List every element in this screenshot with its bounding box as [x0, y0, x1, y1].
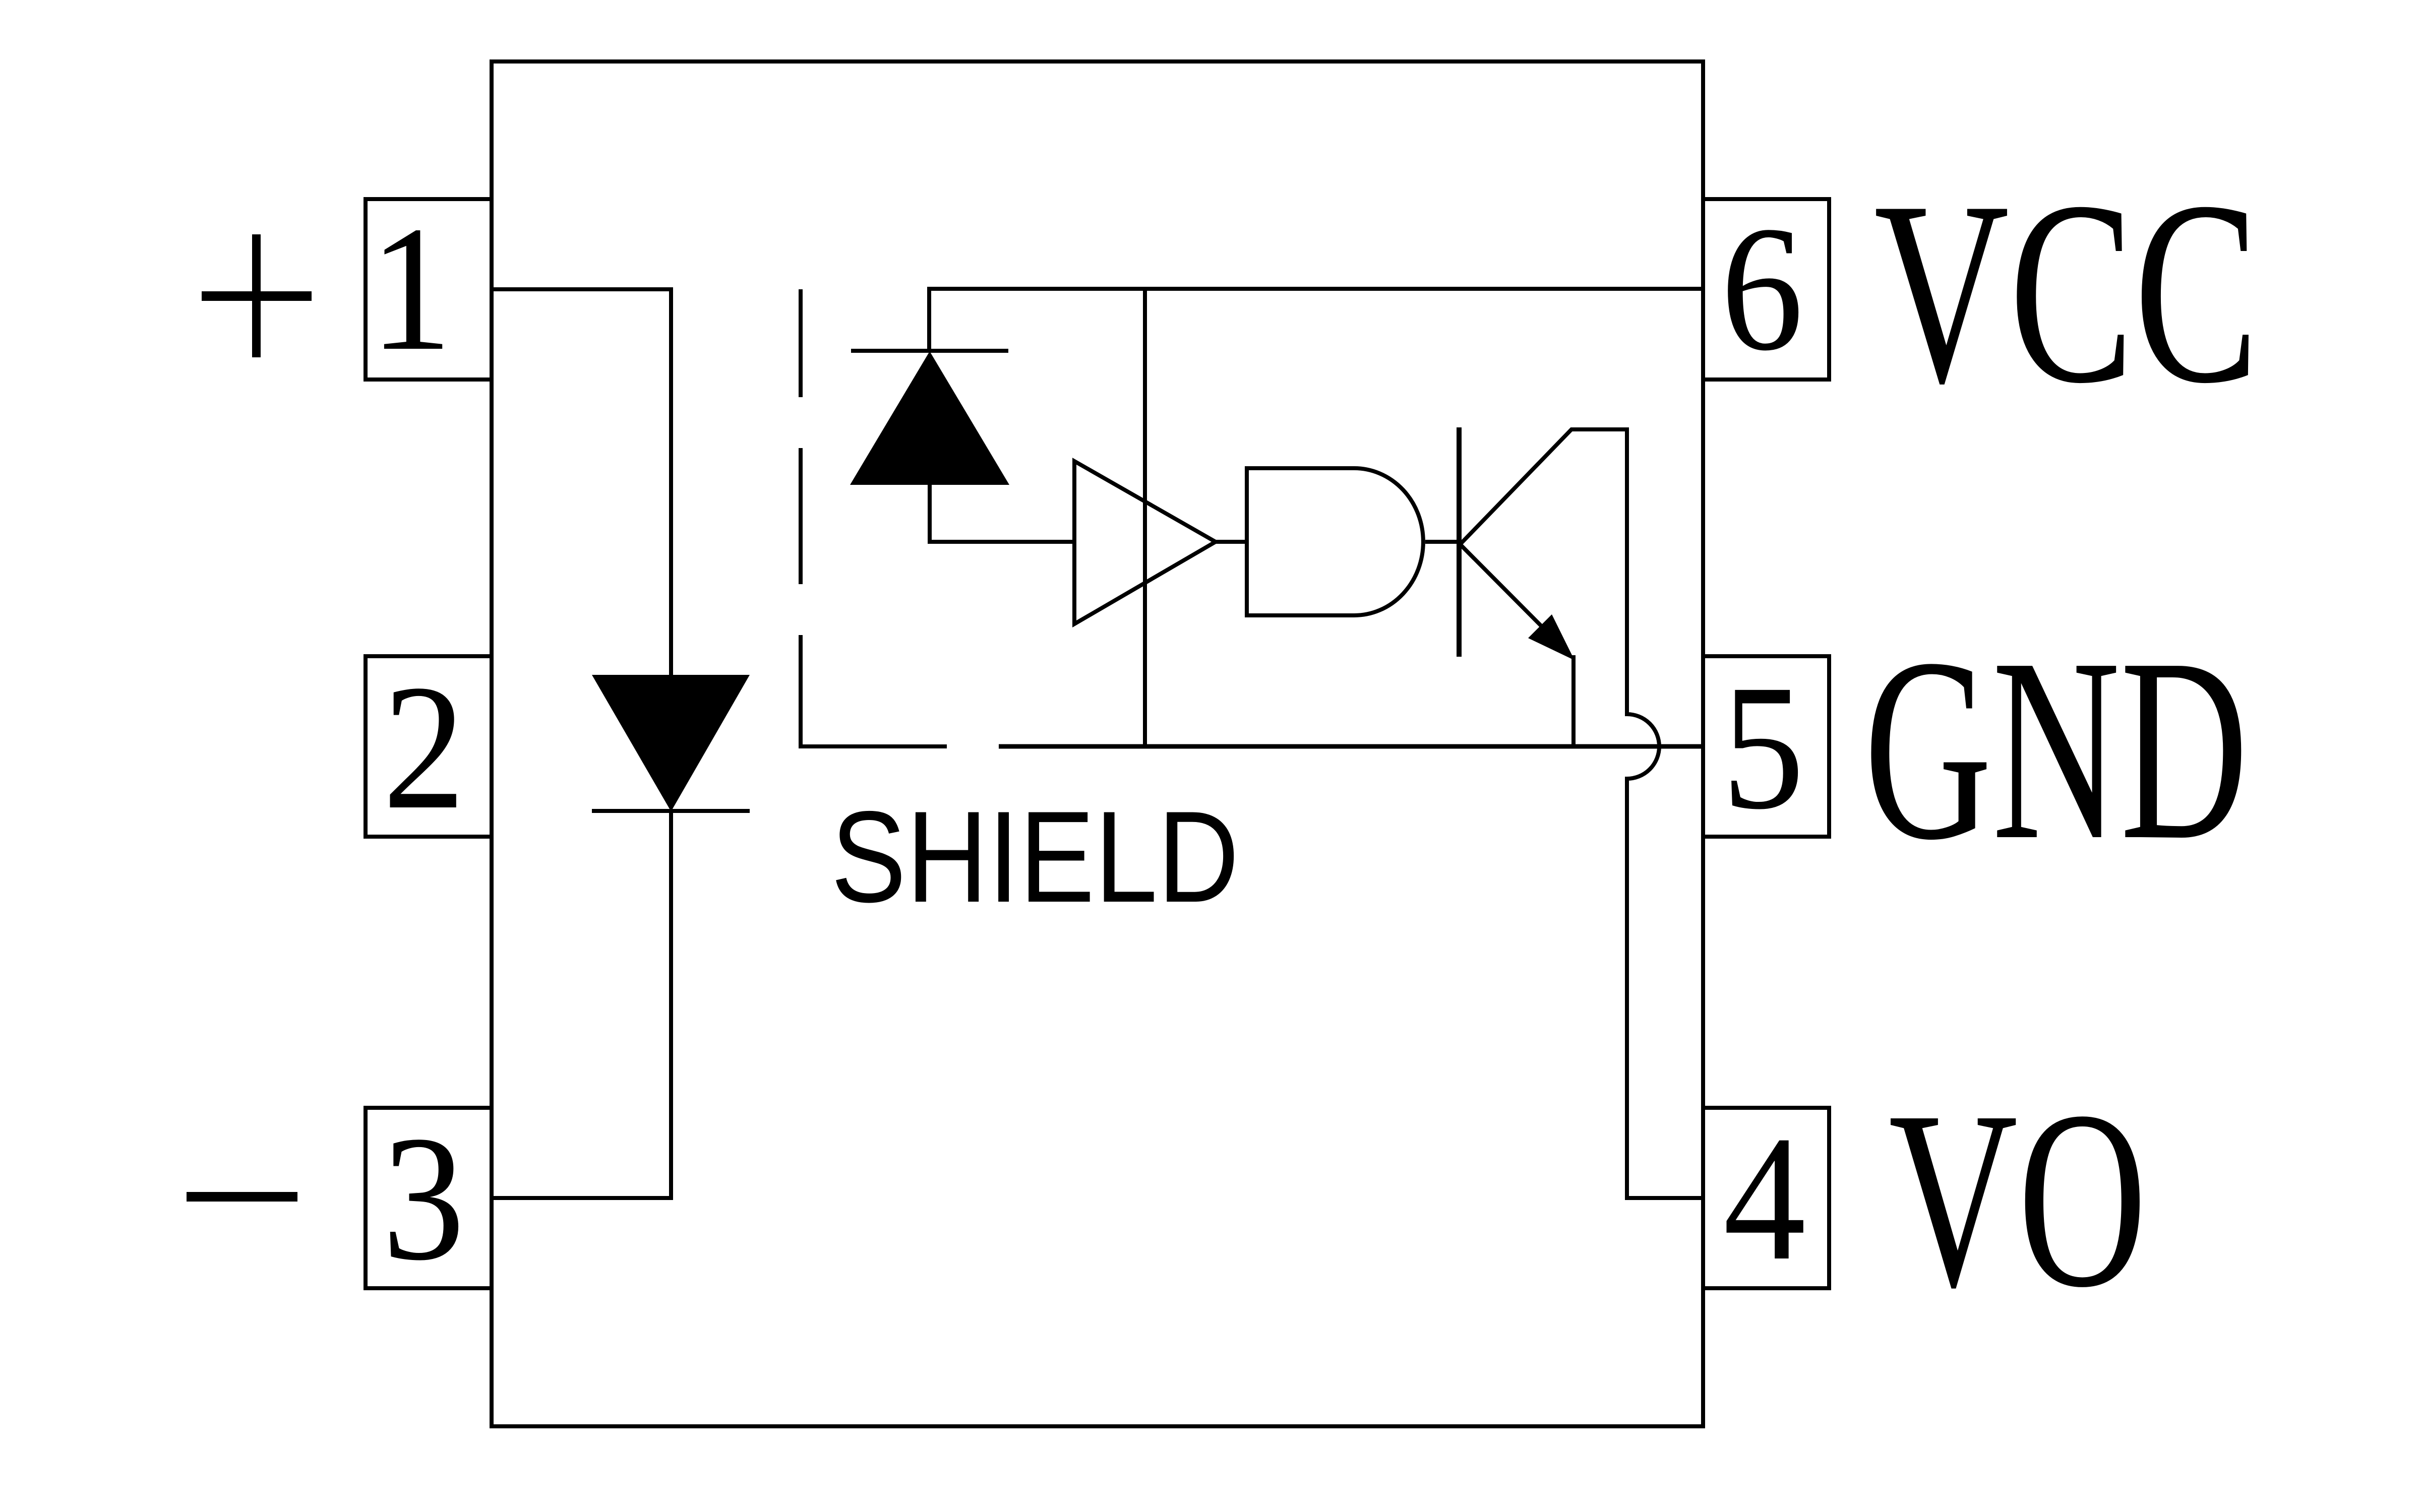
pin 3 box — [366, 1108, 492, 1288]
transistor Q1 base bar — [1457, 427, 1462, 657]
plus symbol — [202, 291, 312, 301]
pin 2 box — [366, 656, 492, 837]
svg-text:6: 6 — [1721, 189, 1803, 388]
wire buffer to gate — [1216, 540, 1247, 544]
pin 6 box — [1703, 199, 1829, 380]
wire photodiode to buffer — [930, 485, 1074, 542]
LED D1 filled triangle — [592, 675, 750, 811]
AND gate G1 — [1247, 468, 1423, 615]
svg-text:5: 5 — [1722, 648, 1804, 846]
pin 1 box — [366, 199, 492, 380]
svg-text:SHIELD: SHIELD — [831, 784, 1239, 929]
shield dashed corner — [801, 635, 947, 746]
transistor Q1 emitter wire — [1461, 545, 1548, 633]
svg-text:2: 2 — [383, 648, 465, 846]
photodiode D2 anode bar — [851, 349, 1008, 353]
svg-text:4: 4 — [1723, 1099, 1806, 1297]
wire LED cathode to pin3 — [492, 811, 671, 1198]
svg-text:3: 3 — [382, 1099, 465, 1297]
photodiode D2 filled triangle — [850, 351, 1009, 485]
transistor Q1 emitter tail to GND — [1571, 655, 1576, 746]
svg-text:VO: VO — [1889, 1059, 2147, 1340]
transistor Q1 collector wire with hop to pin4 — [1461, 429, 1703, 1198]
svg-text:1: 1 — [370, 189, 452, 388]
wire pin1 anode — [492, 289, 671, 677]
transistor Q1 emitter arrowhead — [1528, 614, 1575, 660]
GND rail to pin5 — [999, 744, 1703, 749]
minus symbol — [187, 1192, 297, 1202]
svg-text:VCC: VCC — [1874, 147, 2259, 437]
wire gate to base — [1425, 540, 1459, 544]
pin 5 box — [1703, 656, 1829, 837]
LED D1 cathode bar — [592, 809, 750, 813]
pin 4 box — [1703, 1108, 1829, 1288]
wire VCC-GND junction — [1143, 289, 1147, 746]
IC body outline U1 — [492, 61, 1703, 1426]
wire VCC rail to pin6 — [929, 289, 1703, 351]
shield dashed left side — [799, 289, 803, 397]
svg-text:GND: GND — [1864, 604, 2248, 894]
op-amp buffer A1 — [1074, 461, 1216, 624]
